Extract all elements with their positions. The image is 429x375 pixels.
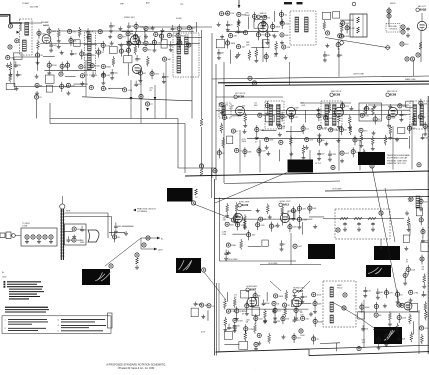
svg-text:135V: 135V bbox=[2, 277, 7, 279]
svg-text:VIDEO DET: VIDEO DET bbox=[124, 17, 136, 19]
svg-text:1.5M: 1.5M bbox=[344, 36, 349, 38]
svg-text:CONTROL: CONTROL bbox=[389, 29, 398, 31]
svg-text:330K: 330K bbox=[182, 29, 187, 31]
svg-text:10K: 10K bbox=[365, 115, 369, 117]
svg-text:56K: 56K bbox=[230, 224, 234, 226]
svg-text:300 OHM: 300 OHM bbox=[30, 7, 39, 9]
svg-text:56K: 56K bbox=[248, 152, 252, 154]
svg-text:1.5M: 1.5M bbox=[238, 320, 243, 322]
svg-text:6AQ5: 6AQ5 bbox=[420, 9, 427, 12]
svg-text:SWEEP AT 7875 CPS: SWEEP AT 7875 CPS bbox=[387, 162, 406, 165]
svg-text:NOISE: NOISE bbox=[196, 304, 203, 306]
svg-text:2.2M: 2.2M bbox=[350, 28, 355, 30]
svg-text:330K: 330K bbox=[242, 141, 247, 143]
svg-text:4.5V: 4.5V bbox=[201, 332, 206, 334]
svg-text:TP1: TP1 bbox=[180, 4, 183, 6]
svg-text:330K: 330K bbox=[278, 296, 283, 298]
svg-text:4.7K: 4.7K bbox=[367, 290, 372, 292]
svg-text:4.7K: 4.7K bbox=[90, 32, 95, 34]
svg-text:HOR: HOR bbox=[66, 211, 71, 213]
svg-text:6AU6: 6AU6 bbox=[242, 204, 249, 207]
svg-text:©Howard W. Sams & Co., Inc. 19: ©Howard W. Sams & Co., Inc. 1952 bbox=[118, 367, 155, 370]
svg-text:TAKEN WITH WIDE BAND: TAKEN WITH WIDE BAND bbox=[387, 154, 410, 157]
svg-text:HORIZ AFC: HORIZ AFC bbox=[246, 285, 258, 288]
svg-text:1.5M: 1.5M bbox=[413, 292, 418, 294]
svg-text:VOLTAGES: VOLTAGES bbox=[137, 210, 148, 213]
svg-text:10K: 10K bbox=[392, 117, 396, 119]
svg-text:AF OUT: AF OUT bbox=[418, 5, 426, 8]
svg-text:6CB6: 6CB6 bbox=[334, 94, 341, 97]
svg-text:2.2M: 2.2M bbox=[302, 219, 307, 221]
svg-text:2.2M: 2.2M bbox=[331, 154, 336, 156]
svg-text:A PROPOSED STANDARD NOTATION S: A PROPOSED STANDARD NOTATION SCHEMATIC bbox=[106, 363, 165, 366]
svg-text:330K: 330K bbox=[106, 67, 111, 69]
svg-text:22K: 22K bbox=[233, 36, 237, 38]
svg-text:330K: 330K bbox=[318, 321, 323, 323]
svg-text:10K: 10K bbox=[424, 103, 428, 105]
svg-text:22K: 22K bbox=[424, 201, 428, 203]
svg-text:100K: 100K bbox=[245, 15, 250, 17]
svg-text:100K: 100K bbox=[95, 66, 100, 68]
svg-text:100K: 100K bbox=[300, 335, 305, 337]
svg-text:6AL5: 6AL5 bbox=[283, 204, 290, 207]
svg-text:2.2M: 2.2M bbox=[333, 130, 338, 132]
svg-text:330K: 330K bbox=[52, 65, 57, 67]
svg-text:100K: 100K bbox=[317, 295, 322, 297]
svg-text:1.5M: 1.5M bbox=[127, 90, 132, 92]
svg-text:56K: 56K bbox=[269, 140, 273, 142]
svg-text:4.5MC: 4.5MC bbox=[176, 18, 182, 20]
svg-text:PROBE AT TUBE GRID: PROBE AT TUBE GRID bbox=[387, 159, 408, 162]
svg-text:330K: 330K bbox=[230, 43, 235, 45]
svg-text:OCH LINE: OCH LINE bbox=[268, 263, 278, 265]
svg-text:10K: 10K bbox=[318, 304, 322, 306]
svg-text:SPKR: SPKR bbox=[390, 3, 396, 5]
svg-text:56K: 56K bbox=[167, 59, 171, 61]
svg-text:2.2M: 2.2M bbox=[257, 16, 262, 18]
svg-text:4.7K: 4.7K bbox=[106, 88, 111, 90]
svg-text:TO ANT: TO ANT bbox=[22, 2, 30, 5]
svg-text:330K: 330K bbox=[276, 26, 281, 28]
svg-text:10K: 10K bbox=[285, 35, 289, 37]
svg-text:330K: 330K bbox=[139, 26, 144, 28]
svg-text:1V P-P: 1V P-P bbox=[315, 163, 322, 165]
svg-text:OCH LINE: OCH LINE bbox=[332, 189, 342, 191]
svg-text:100K: 100K bbox=[365, 307, 370, 309]
svg-text:330K: 330K bbox=[231, 245, 236, 247]
svg-text:6CB6: 6CB6 bbox=[390, 94, 397, 97]
svg-text:OCH LINE: OCH LINE bbox=[228, 259, 238, 261]
svg-text:2.2M: 2.2M bbox=[249, 329, 254, 331]
svg-text:YOKE: YOKE bbox=[22, 226, 28, 228]
svg-text:330K: 330K bbox=[237, 216, 242, 218]
svg-text:DARK LINE: DARK LINE bbox=[405, 78, 416, 81]
svg-text:LIGHT LINE: LIGHT LINE bbox=[353, 74, 365, 76]
svg-text:265V: 265V bbox=[158, 249, 163, 251]
svg-text:22K: 22K bbox=[270, 106, 274, 108]
svg-text:6AG5: 6AG5 bbox=[43, 24, 49, 27]
svg-text:1.5M: 1.5M bbox=[222, 234, 227, 236]
svg-text:RF AMP: RF AMP bbox=[41, 21, 49, 24]
svg-text:1.5M: 1.5M bbox=[322, 127, 327, 129]
svg-text:330K: 330K bbox=[265, 303, 270, 305]
svg-text:6SN7: 6SN7 bbox=[250, 289, 257, 292]
svg-text:100K: 100K bbox=[80, 242, 85, 244]
svg-text:SCOPE AND LOW CAP: SCOPE AND LOW CAP bbox=[387, 157, 408, 160]
svg-text:HOLD: HOLD bbox=[337, 288, 343, 290]
svg-text:56K: 56K bbox=[313, 208, 317, 210]
svg-text:330K: 330K bbox=[400, 339, 405, 341]
